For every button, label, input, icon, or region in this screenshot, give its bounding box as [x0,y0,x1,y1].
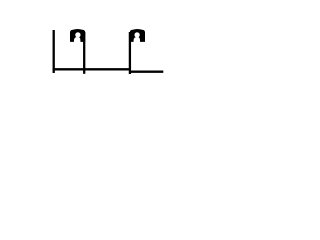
person marker flag 1 (pole on right) [70,29,85,42]
wire: left vertical riser [53,30,55,73]
wire: upper horizontal baseline [53,68,131,70]
wire: pole of person marker 1 [83,32,85,74]
wire: lower horizontal segment (step down) [130,71,164,73]
person marker flag 2 (pole on left) [130,29,145,42]
wire: pole of person marker 2 [129,32,131,74]
